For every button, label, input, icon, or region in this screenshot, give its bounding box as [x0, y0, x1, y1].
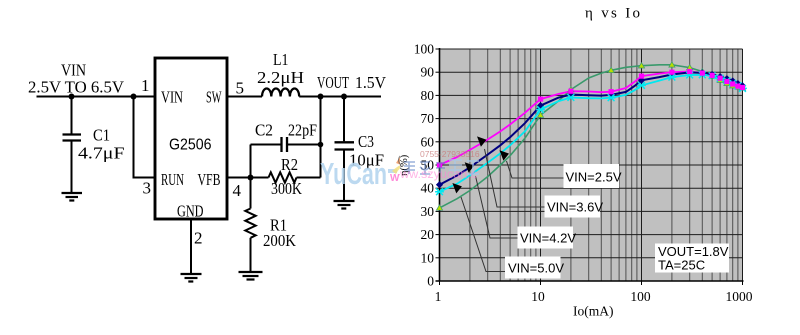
svg-text:1: 1 — [141, 76, 150, 95]
wire C2/R2 left vertical — [250, 145, 252, 178]
svg-text:C3: C3 — [358, 132, 374, 151]
chart panel — [400, 0, 800, 335]
arrow to cyan curve — [465, 162, 475, 172]
resistor R2 — [269, 172, 297, 182]
markers VIN=2.5V magenta squares — [437, 69, 745, 168]
watermark blue glyphs — [404, 162, 445, 174]
svg-text:10: 10 — [421, 250, 435, 265]
svg-text:4: 4 — [233, 181, 242, 200]
wire C3 bottom lead — [343, 151, 345, 201]
svg-text:70: 70 — [421, 111, 435, 126]
svg-text:22pF: 22pF — [288, 121, 317, 140]
chart gridlines — [470, 49, 738, 281]
node VIN/C1 junction — [69, 94, 75, 100]
svg-text:VIN: VIN — [161, 88, 183, 107]
capacitor C2 — [282, 137, 288, 152]
svg-text:3: 3 — [143, 179, 152, 198]
curve VIN=5.0V (green) — [440, 65, 743, 208]
svg-text:WWW.S: WWW.S — [390, 173, 400, 184]
svg-text:VFB: VFB — [198, 170, 221, 189]
svg-text:40: 40 — [421, 181, 435, 196]
svg-text:VIN=5.0V: VIN=5.0V — [508, 261, 564, 276]
svg-text:60: 60 — [421, 134, 435, 149]
svg-text:Io(mA): Io(mA) — [573, 304, 614, 319]
wire RUN branch — [134, 97, 155, 178]
wire R1 bottom lead — [250, 238, 252, 271]
y axis labels — [414, 42, 435, 289]
callout VIN=5.0V — [505, 257, 564, 279]
svg-text:1000: 1000 — [726, 289, 753, 304]
svg-text:200K: 200K — [263, 231, 297, 250]
ground below C1 — [62, 193, 83, 201]
wire C2 right lead — [288, 144, 321, 146]
svg-text:R2: R2 — [281, 155, 298, 174]
wire C1 bottom lead — [71, 142, 73, 193]
svg-text:1: 1 — [435, 289, 442, 304]
watermark YuCan logo — [320, 151, 428, 191]
arrow to green curve — [452, 183, 462, 193]
node VOUT/feedback junction — [318, 94, 324, 100]
svg-text:RUN: RUN — [161, 170, 184, 189]
callout VIN=4.2V — [518, 227, 577, 249]
wire feedback vertical drop — [320, 97, 322, 178]
svg-text:90: 90 — [421, 65, 435, 80]
curve VIN=2.5V (magenta) — [440, 72, 743, 166]
arrow to navy curve — [477, 136, 487, 146]
svg-text:300K: 300K — [271, 179, 303, 198]
curve VIN=3.6V (navy) — [440, 72, 743, 184]
callout VOUT=1.8V TA=25C — [655, 244, 729, 273]
resistor R1 — [245, 209, 255, 238]
svg-text:20: 20 — [421, 227, 435, 242]
node VIN/RUN junction — [131, 94, 137, 100]
wire GND pin 2 lead — [190, 220, 192, 274]
wire VOUT rail — [299, 96, 381, 98]
watermark pale glyphs on plot — [449, 160, 479, 174]
inductor L1 — [262, 89, 299, 97]
svg-text:www.szyucan.c: www.szyucan.c — [400, 167, 477, 181]
svg-text:2.5V TO 6.5V: 2.5V TO 6.5V — [28, 78, 125, 97]
svg-text:VOUT: VOUT — [317, 73, 349, 92]
node C2 right junction — [318, 142, 324, 148]
svg-text:10: 10 — [531, 289, 545, 304]
svg-text:C1: C1 — [93, 126, 110, 145]
callout VIN=2.5V — [505, 164, 729, 279]
node VFB/R1 junction — [248, 175, 254, 181]
svg-text:L1: L1 — [273, 50, 289, 69]
svg-text:GND: GND — [177, 202, 204, 221]
wire VIN input rail — [37, 96, 155, 98]
svg-text:YuCan: YuCan — [320, 156, 387, 191]
svg-text:5: 5 — [236, 79, 245, 98]
svg-text:80: 80 — [421, 88, 435, 103]
node VOUT/C3 junction — [341, 94, 347, 100]
svg-text:VIN=3.6V: VIN=3.6V — [547, 200, 603, 215]
wire C3 top lead — [343, 97, 345, 142]
chart plot area background — [440, 49, 743, 281]
leader line VIN=2.5V — [461, 149, 564, 272]
svg-text:30: 30 — [421, 204, 435, 219]
svg-text:100: 100 — [630, 289, 651, 304]
ground below C3 — [334, 201, 355, 209]
curve VIN=4.2V (cyan) — [440, 75, 743, 192]
svg-text:0: 0 — [427, 274, 434, 289]
wire C1 top lead — [71, 97, 73, 134]
wire C2 left lead — [251, 144, 282, 146]
markers VIN=5.0V green triangles — [436, 62, 745, 211]
markers VIN=3.6V navy diamonds — [436, 69, 746, 189]
wire R1 top lead — [250, 178, 252, 209]
wire SW output — [228, 96, 263, 98]
markers VIN=4.2V cyan stars — [435, 71, 747, 195]
svg-text:SW: SW — [206, 88, 222, 107]
x axis labels — [435, 289, 753, 304]
IC U1 G2506 body — [155, 58, 227, 219]
svg-text:1.5V: 1.5V — [355, 73, 387, 92]
svg-text:0755-27933516: 0755-27933516 — [420, 149, 480, 159]
svg-text:2.2μH: 2.2μH — [257, 68, 304, 87]
wire R2 right lead — [297, 177, 321, 179]
ground below R1 — [239, 272, 263, 280]
svg-text:η vs Io: η vs Io — [585, 6, 640, 22]
svg-text:C2: C2 — [255, 121, 273, 140]
svg-text:VIN=4.2V: VIN=4.2V — [520, 231, 576, 246]
callout VIN=3.6V — [545, 196, 604, 218]
circuit schematic panel — [0, 0, 400, 335]
wire VFB pin lead — [228, 177, 269, 179]
capacitor C3 — [335, 142, 355, 149]
svg-text:2: 2 — [194, 229, 203, 248]
ground below IC pin 2 — [181, 274, 202, 282]
capacitor C1 — [63, 135, 82, 141]
svg-text:TA=25C: TA=25C — [658, 258, 705, 273]
svg-text:100: 100 — [414, 42, 435, 57]
arrow to magenta curve — [500, 150, 510, 160]
svg-text:4.7μF: 4.7μF — [78, 144, 125, 163]
svg-text:VIN=2.5V: VIN=2.5V — [566, 170, 622, 185]
svg-text:G2506: G2506 — [169, 137, 212, 154]
chart axes — [436, 48, 744, 281]
